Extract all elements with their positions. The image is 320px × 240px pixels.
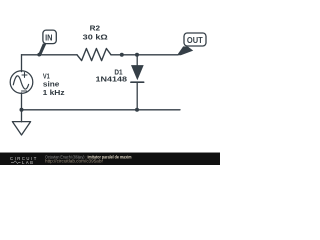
svg-text:OUT: OUT [187, 36, 203, 45]
svg-text:30 kΩ: 30 kΩ [83, 33, 108, 42]
svg-text:R2: R2 [90, 24, 100, 33]
svg-text:LAB: LAB [22, 160, 34, 165]
svg-text:1N4148: 1N4148 [96, 75, 128, 84]
svg-text:http://circuitlab.com/c395abr: http://circuitlab.com/c395abr [45, 158, 103, 163]
svg-text:IN: IN [45, 34, 52, 43]
svg-text:1 kHz: 1 kHz [43, 88, 65, 97]
